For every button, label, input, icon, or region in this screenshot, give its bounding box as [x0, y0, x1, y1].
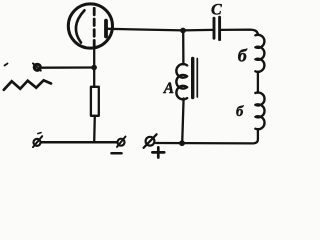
svg-text:б: б: [238, 46, 248, 66]
terminal + (plus supply) circle: [146, 137, 155, 146]
label +: [152, 147, 164, 157]
terminal (grid/antenna) circle: [34, 64, 40, 70]
terminal ø left: [34, 139, 41, 146]
wire: capacitor to top-right corner: [221, 30, 258, 35]
terminal ø right slash: [117, 137, 126, 147]
wire: between right coils: [257, 72, 259, 93]
capacitor C right plate: [218, 17, 221, 39]
terminal + slash: [144, 134, 157, 148]
wire: left bottom rail: [41, 141, 117, 144]
terminal ø right: [118, 139, 125, 146]
core bar thick: [191, 59, 194, 98]
stray ink tick above left terminal: [38, 133, 41, 134]
core bar thin: [196, 59, 198, 98]
inductor б (lower right coil): [255, 92, 264, 129]
svg-text:А: А: [163, 80, 174, 97]
inductor Б (upper right coil): [255, 35, 264, 72]
vacuum tube grid (dashed): [93, 8, 96, 47]
wire: anode junction down to coil A: [182, 31, 184, 64]
node: anode junction: [180, 28, 186, 34]
resistor R (grid leak): [91, 87, 99, 116]
zigzag (antenna lead-in): [4, 80, 51, 90]
wire: grid horizontal wire: [41, 66, 94, 68]
label minus: [112, 152, 122, 155]
node: bottom junction: [179, 140, 185, 146]
svg-text:б: б: [236, 104, 244, 120]
capacitor C left plate: [213, 18, 216, 38]
inductor A: [176, 64, 187, 99]
wire: anode lead to capacitor: [108, 29, 213, 31]
node: grid junction: [91, 65, 97, 71]
wire: resistor to left rail: [93, 116, 96, 142]
wire: coil A to bottom rail: [182, 98, 183, 143]
vacuum tube cathode: [76, 10, 85, 42]
wire: lower coil down to bottom rail and left to + terminal: [156, 129, 258, 143]
wire: grid lead below tube: [93, 48, 95, 87]
svg-text:С: С: [211, 1, 222, 18]
terminal slash: [33, 63, 41, 70]
vacuum tube anode bar: [104, 21, 108, 37]
vacuum tube V1 envelope: [68, 4, 112, 48]
terminal ø left slash: [33, 136, 42, 147]
stray ink speck at left edge: [5, 64, 8, 66]
